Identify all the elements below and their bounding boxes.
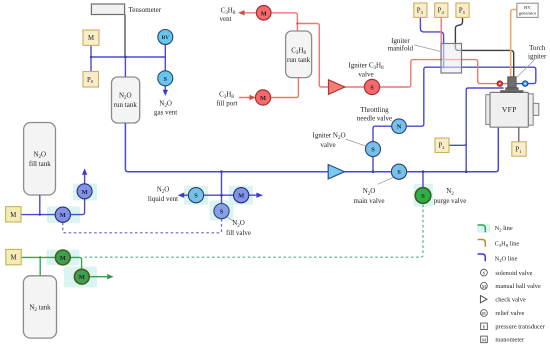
legend manometer icon bbox=[481, 336, 488, 343]
box P5 bbox=[456, 3, 469, 17]
legend solenoid icon bbox=[481, 269, 488, 276]
N2O fill tank bbox=[24, 123, 56, 196]
VFP body bbox=[490, 92, 528, 127]
blue dot valve bbox=[523, 81, 528, 86]
wire N2O fill dashed bbox=[63, 219, 222, 233]
box P3 bbox=[414, 3, 427, 17]
svg-text:N2 line: N2 line bbox=[495, 225, 513, 232]
VFP right flange bbox=[528, 94, 533, 125]
manual M C3H8 vent bbox=[256, 6, 271, 21]
N2O run tank bbox=[112, 77, 140, 123]
wire N2O main line bbox=[125, 123, 498, 172]
svg-text:manometer: manometer bbox=[495, 337, 525, 344]
solenoid S igniter N2O valve bbox=[366, 142, 381, 157]
svg-text:Torch: Torch bbox=[529, 44, 546, 52]
wire P3 bbox=[420, 17, 443, 67]
svg-text:M: M bbox=[79, 274, 85, 281]
solenoid S purge green bbox=[415, 188, 431, 204]
svg-text:N2O line: N2O line bbox=[495, 255, 518, 262]
wire P2 riser bbox=[466, 88, 503, 172]
wire N2 purge dashed bbox=[85, 204, 424, 258]
svg-text:P: P bbox=[483, 324, 486, 329]
box M fill tank bbox=[6, 207, 21, 222]
legend relief icon bbox=[481, 310, 488, 317]
legend N2 line icon bbox=[478, 225, 486, 232]
svg-text:Throttling: Throttling bbox=[360, 106, 389, 114]
solenoid S igniter C3H8 valve bbox=[364, 79, 379, 94]
svg-text:check valve: check valve bbox=[495, 296, 526, 303]
callout torch igniter bbox=[517, 59, 536, 77]
solenoid S gas vent bbox=[158, 71, 173, 86]
wire N2 line bbox=[22, 257, 108, 276]
svg-text:fill port: fill port bbox=[216, 99, 237, 107]
box P2 bbox=[435, 138, 449, 153]
solenoid S liquid vent bbox=[188, 188, 203, 203]
wire C3H8 igniter line bbox=[297, 24, 497, 88]
legend N2O line icon bbox=[478, 254, 486, 261]
svg-text:solenoid valve: solenoid valve bbox=[495, 270, 532, 277]
VFP left flange bbox=[486, 95, 490, 125]
box P1 bbox=[512, 142, 526, 156]
legend manual icon bbox=[481, 283, 488, 290]
svg-text:run tank: run tank bbox=[287, 56, 311, 64]
wire fill tank line bbox=[21, 175, 85, 215]
svg-text:N: N bbox=[397, 124, 402, 131]
svg-text:S: S bbox=[220, 209, 224, 216]
svg-text:needle valve: needle valve bbox=[357, 115, 392, 123]
wire P5 black bbox=[455, 17, 513, 76]
svg-text:fill valve: fill valve bbox=[226, 229, 251, 237]
svg-text:run tank: run tank bbox=[114, 101, 138, 109]
wire red dot to torch bbox=[503, 83, 508, 85]
manual M liquid vent row bbox=[234, 188, 249, 203]
check valve red bbox=[329, 80, 345, 95]
svg-text:manifold: manifold bbox=[388, 44, 414, 52]
wire C3H8 fill port bbox=[239, 78, 298, 98]
box M top-left bbox=[83, 30, 99, 45]
legend pressure icon bbox=[481, 323, 488, 330]
wire P4 bbox=[440, 17, 442, 59]
arrow fill port right bbox=[249, 95, 256, 100]
solenoid S fill valve bbox=[214, 204, 229, 219]
tensometer rod bbox=[124, 15, 126, 58]
callout main valve bbox=[378, 177, 395, 184]
arrow fill line vent up bbox=[82, 168, 87, 174]
tensometer box bbox=[91, 4, 124, 15]
wire liquid vent row bbox=[183, 194, 257, 196]
svg-text:S: S bbox=[421, 193, 425, 200]
arrow N2 right bbox=[107, 274, 114, 279]
manual M fill line upper bbox=[77, 184, 92, 199]
svg-text:pressure transducer: pressure transducer bbox=[495, 324, 545, 331]
wire purge stub bbox=[422, 172, 424, 188]
N2 tank bbox=[23, 276, 56, 338]
box P0 bbox=[83, 72, 99, 88]
svg-text:M: M bbox=[482, 284, 486, 289]
relief valve RV bbox=[158, 30, 173, 45]
needle valve N bbox=[392, 119, 407, 134]
wire HV orange bbox=[511, 10, 517, 77]
solenoid S main valve bbox=[391, 164, 406, 179]
letters in valve circles bbox=[60, 10, 425, 281]
igniter manifold bbox=[441, 44, 462, 74]
svg-text:S: S bbox=[483, 271, 486, 276]
check valve blue bbox=[328, 165, 344, 180]
svg-text:RV: RV bbox=[482, 312, 487, 316]
svg-text:M: M bbox=[82, 189, 88, 196]
manual M C3H8 fill port bbox=[255, 90, 270, 105]
svg-text:M: M bbox=[88, 35, 94, 42]
svg-text:VFP: VFP bbox=[502, 105, 517, 114]
glow S fill valve bbox=[210, 201, 234, 221]
svg-text:valve: valve bbox=[358, 71, 373, 79]
svg-text:S: S bbox=[371, 147, 375, 154]
wire fill valve drop bbox=[221, 172, 223, 204]
svg-text:S: S bbox=[370, 85, 374, 92]
glow M fill line lower bbox=[47, 206, 80, 223]
wire igniter N2O branch bbox=[373, 67, 536, 172]
wire blue dot to torch bbox=[516, 83, 522, 85]
wire P2 connector bbox=[449, 143, 466, 145]
svg-text:M: M bbox=[60, 212, 66, 219]
callout manifold bbox=[414, 45, 441, 52]
legend C3H8 line icon bbox=[478, 240, 486, 247]
svg-text:generator: generator bbox=[519, 11, 537, 16]
glow green S purge bbox=[414, 184, 434, 207]
arrow C3H8 vent left bbox=[238, 10, 245, 15]
svg-text:main valve: main valve bbox=[354, 197, 385, 205]
svg-text:M: M bbox=[261, 10, 267, 17]
svg-text:M: M bbox=[238, 193, 244, 200]
manual M green 2 bbox=[74, 269, 89, 284]
letters in sensor boxes bbox=[10, 5, 536, 262]
callout igniter N2O valve bbox=[346, 139, 366, 146]
junction dots bbox=[220, 170, 223, 173]
svg-text:M: M bbox=[482, 338, 486, 343]
svg-text:S: S bbox=[194, 193, 198, 200]
glow M fill line upper bbox=[73, 184, 97, 201]
svg-text:HV: HV bbox=[524, 5, 531, 10]
svg-text:M: M bbox=[10, 212, 16, 219]
glow green M1 bbox=[47, 250, 80, 265]
svg-text:igniter: igniter bbox=[528, 52, 547, 60]
VFP nub bbox=[533, 103, 539, 115]
torch plate bbox=[500, 90, 523, 93]
svg-text:Tensometer: Tensometer bbox=[129, 6, 162, 14]
wire N2O top manifold M/P0 bbox=[91, 45, 165, 91]
torch igniter body bbox=[508, 77, 517, 88]
svg-text:manual ball valve: manual ball valve bbox=[495, 283, 541, 290]
svg-text:liquid vent: liquid vent bbox=[148, 195, 178, 203]
manual M fill line lower bbox=[55, 207, 70, 222]
wire C3H8 vent bbox=[244, 13, 298, 31]
arrow liquid vent right bbox=[256, 193, 263, 198]
svg-text:M: M bbox=[10, 255, 16, 262]
svg-text:M: M bbox=[60, 255, 66, 262]
torch base bbox=[505, 87, 518, 90]
box P4 bbox=[435, 3, 448, 17]
box HV generator bbox=[517, 3, 538, 17]
glow green M2 bbox=[64, 267, 97, 288]
wire P1 bbox=[518, 127, 520, 142]
svg-text:M: M bbox=[260, 95, 266, 102]
glow legend N2 icon bbox=[477, 224, 490, 233]
svg-text:valve: valve bbox=[320, 141, 335, 149]
manual M green 1 bbox=[55, 250, 70, 265]
box M N2 tank bbox=[6, 249, 21, 264]
arrow liquid vent left bbox=[178, 193, 185, 198]
legend check icon bbox=[480, 296, 487, 303]
callout fill valve bbox=[227, 217, 234, 222]
glow S liquid vent bbox=[184, 186, 208, 205]
arrow gas vent down bbox=[163, 90, 168, 96]
red dot valve bbox=[497, 81, 502, 86]
svg-text:gas vent: gas vent bbox=[154, 109, 177, 117]
svg-text:vent: vent bbox=[219, 15, 231, 23]
svg-text:RV: RV bbox=[162, 35, 170, 41]
svg-text:fill tank: fill tank bbox=[29, 160, 51, 168]
C3H8 run tank bbox=[286, 31, 312, 78]
svg-text:purge valve: purge valve bbox=[434, 197, 467, 205]
svg-text:S: S bbox=[397, 169, 401, 176]
glow M liquid vent row bbox=[229, 186, 253, 205]
svg-text:S: S bbox=[164, 76, 168, 83]
svg-text:relief valve: relief valve bbox=[495, 310, 524, 317]
